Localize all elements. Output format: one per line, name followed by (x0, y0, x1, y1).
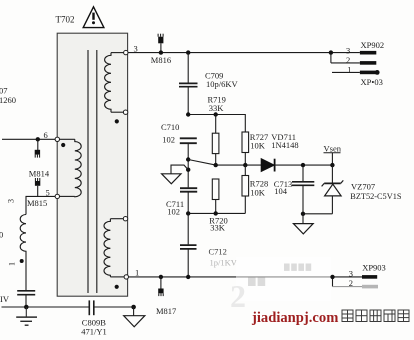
svg-text:C710: C710 (161, 122, 179, 132)
node junction C713 top (301, 163, 305, 167)
W2 phase dot (61, 143, 65, 147)
L phase dot (20, 259, 24, 263)
svg-text:471/Y1: 471/Y1 (81, 327, 107, 337)
capacitor C712 (180, 245, 197, 277)
svg-text:6: 6 (44, 130, 48, 140)
bottom rail C809B (2, 306, 134, 308)
warning triangle symbol (83, 7, 104, 28)
chassis ground triangle (bottom) (124, 307, 145, 327)
svg-text:33K: 33K (209, 103, 225, 113)
node junction R719/R720 (214, 163, 218, 167)
svg-text:T702: T702 (56, 15, 75, 25)
svg-text:IV: IV (0, 294, 10, 304)
node junction Vsen (330, 163, 334, 167)
svg-text:1: 1 (347, 65, 351, 75)
svg-text:1: 1 (8, 262, 17, 266)
node C712 junction (186, 275, 190, 279)
pin 3 terminal circle (124, 50, 128, 54)
node mid junction upper (186, 157, 190, 161)
node junction (186, 112, 190, 116)
test point M817 (158, 277, 163, 296)
resistor R720 (212, 179, 219, 213)
transformer core line 2 (96, 50, 98, 293)
svg-text:jiadianpj.com: jiadianpj.com (251, 310, 338, 326)
node junction (214, 112, 218, 116)
watermark white box (236, 257, 331, 301)
node junction (214, 211, 218, 215)
svg-text:XP902: XP902 (361, 40, 385, 50)
svg-text:3: 3 (349, 268, 353, 278)
test point M814 (35, 139, 40, 157)
svg-text:10p/6KV: 10p/6KV (206, 79, 239, 89)
svg-text:104: 104 (274, 186, 288, 196)
wire cap to bottom rail (25, 295, 27, 307)
capacitor C809B (89, 300, 94, 315)
svg-text:C712: C712 (209, 247, 227, 257)
capacitor C709 (179, 53, 198, 115)
resistor R727 (242, 132, 249, 165)
svg-text:M814: M814 (29, 169, 50, 179)
node junction chassis (131, 305, 136, 310)
pin 2 terminal circle (123, 110, 127, 114)
svg-text:2: 2 (346, 55, 350, 65)
chassis ground triangle (left) (162, 174, 181, 184)
pin 1 terminal circle (124, 275, 128, 279)
svg-text:M815: M815 (27, 198, 47, 208)
capacitor below L (17, 291, 35, 295)
svg-text:102: 102 (167, 206, 180, 216)
svg-text:XP903: XP903 (362, 263, 386, 273)
svg-text:2: 2 (230, 278, 246, 314)
wire pin6 rail (2, 138, 55, 140)
svg-text:0: 0 (0, 230, 3, 240)
inductor L (left, pins 3-1) (20, 215, 26, 291)
svg-text:10K: 10K (250, 141, 265, 151)
node M817 junction (159, 275, 163, 279)
test point M815 (35, 178, 40, 196)
chassis ground triangle (C713) (293, 214, 313, 234)
node junction XP902 (329, 50, 333, 54)
capacitor C710 (180, 138, 197, 187)
svg-text:1260: 1260 (0, 95, 16, 105)
watermark gray blocks row (248, 264, 311, 287)
svg-text:3: 3 (7, 199, 16, 203)
node M816 junction (159, 50, 163, 54)
node junction earth (24, 305, 29, 310)
W3 phase dot (115, 285, 119, 289)
bottom wire pin1 net (128, 276, 362, 278)
svg-text:33K: 33K (210, 222, 226, 232)
svg-text:BZT52-C5V1S: BZT52-C5V1S (350, 192, 402, 201)
diode VD711 (261, 159, 332, 172)
node mid junction lower (186, 168, 190, 172)
watermark CJK 家电配件网 blocks (342, 310, 409, 322)
node junction ground (301, 212, 305, 216)
zener diode VZ707 (322, 165, 344, 214)
earth ground symbol (16, 307, 37, 325)
wire to chassis ground (171, 165, 188, 174)
capacitor C713 (292, 165, 314, 214)
node C709 top junction (186, 50, 190, 54)
svg-text:1p/1KV: 1p/1KV (210, 258, 238, 268)
svg-text:Vsen: Vsen (324, 143, 342, 153)
bottom rail right (303, 213, 332, 215)
svg-text:07: 07 (0, 86, 8, 96)
transformer T702 body box (57, 33, 127, 296)
winding W3 (pin 1, bottom right) (104, 219, 124, 277)
svg-text:M816: M816 (151, 55, 171, 65)
test point M816 (158, 34, 163, 53)
net label Vsen (324, 143, 342, 165)
W3 top terminal circle (123, 217, 127, 221)
connector XP903 (333, 275, 379, 288)
pin 6 terminal circle (55, 137, 59, 141)
svg-text:2: 2 (349, 278, 353, 288)
rail R719/R727 top (188, 115, 245, 133)
svg-text:1: 1 (135, 268, 139, 278)
capacitor C711 (180, 188, 197, 244)
node junction R727/R728 (243, 163, 247, 167)
svg-text:10K: 10K (250, 187, 265, 197)
svg-text:1N4148: 1N4148 (271, 140, 298, 150)
svg-text:3: 3 (346, 45, 350, 55)
svg-text:3: 3 (134, 44, 138, 54)
mid rail (216, 164, 262, 166)
svg-text:VZ707: VZ707 (351, 182, 375, 192)
svg-text:102: 102 (162, 134, 175, 144)
bottom rail left (188, 212, 245, 214)
pin 5 terminal circle (55, 194, 59, 198)
node junction XP903 (330, 275, 334, 279)
W1 phase dot (115, 119, 119, 123)
transformer core line 1 (87, 50, 89, 293)
svg-text:M817: M817 (156, 306, 176, 316)
resistor R728 (242, 165, 249, 213)
top rail (pin 3 net) (128, 52, 360, 54)
wire pin5 to inductor (26, 196, 55, 214)
winding W1 (pins 3-2, top right) (105, 53, 124, 113)
winding W2 (pins 6-5, left) (60, 139, 82, 196)
wire diagonal to mid rail (188, 160, 216, 166)
node junction (186, 211, 190, 215)
node junction on pin6 rail (36, 137, 40, 141)
connector XP902 (331, 51, 380, 75)
resistor R719 (212, 115, 219, 166)
svg-text:XP•03: XP•03 (361, 77, 383, 87)
